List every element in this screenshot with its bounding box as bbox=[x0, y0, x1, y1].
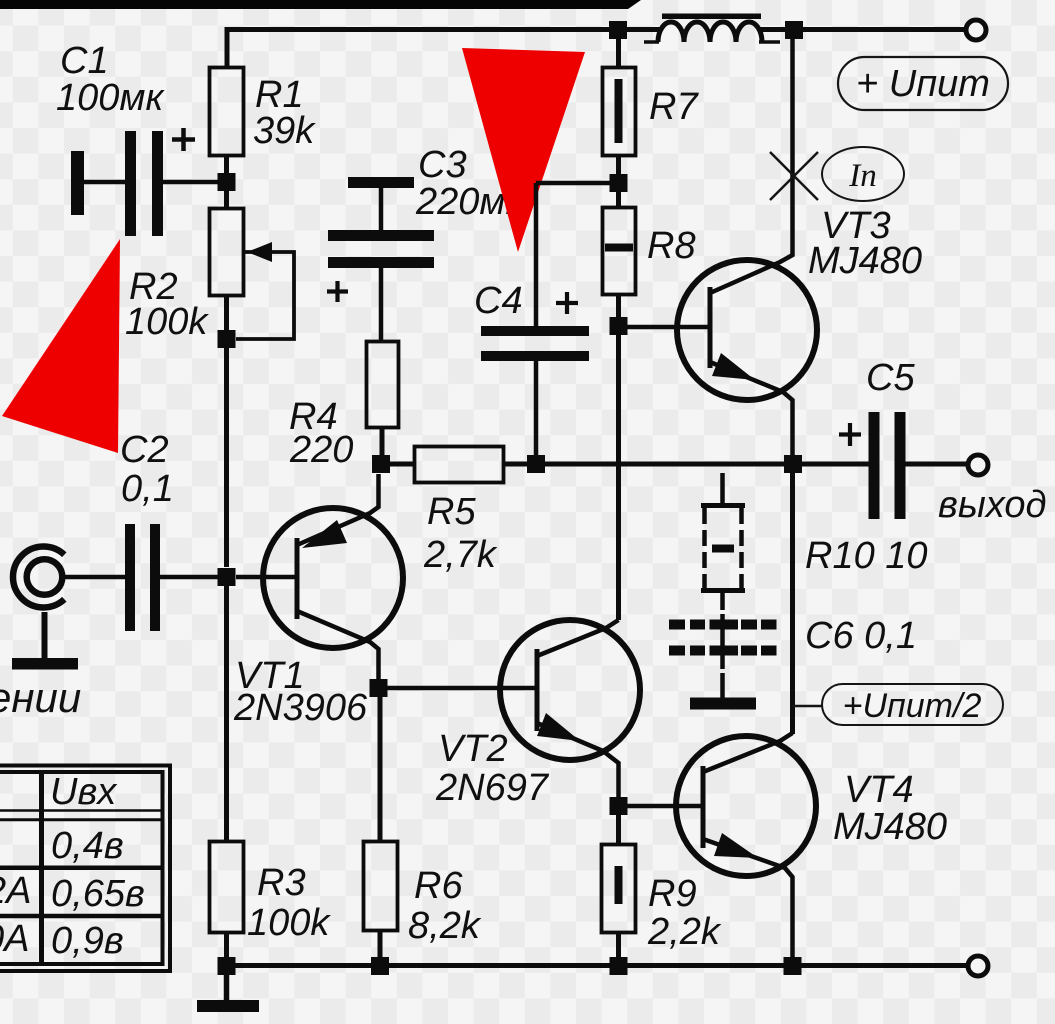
svg-text:0,4в: 0,4в bbox=[51, 825, 124, 867]
svg-text:R7: R7 bbox=[649, 86, 699, 128]
capacitor C6 bbox=[669, 593, 917, 710]
ground input bbox=[12, 658, 78, 670]
node junction C1/R1/R2 bbox=[218, 173, 236, 191]
top black border bar bbox=[0, 0, 641, 9]
svg-text:Uвх: Uвх bbox=[50, 771, 118, 813]
node junction R6 ground bbox=[371, 957, 389, 975]
resistor R3 bbox=[210, 842, 332, 945]
capacitor C2 bbox=[64, 429, 218, 631]
wire R5 node to output node bbox=[545, 462, 785, 467]
wire R6 to ground rail bbox=[378, 930, 383, 958]
svg-text:100мк: 100мк bbox=[56, 77, 165, 119]
wire VT2 node to VT4 base bbox=[627, 804, 702, 809]
svg-text:8,2k: 8,2k bbox=[408, 905, 482, 947]
label In oval bbox=[822, 147, 904, 201]
wire R3 to ground rail bbox=[224, 933, 229, 957]
resistor R4 bbox=[289, 342, 399, 472]
red triangle top bbox=[462, 48, 585, 252]
resistor R6 bbox=[364, 842, 482, 948]
svg-text:R10 10: R10 10 bbox=[805, 535, 928, 577]
svg-text:C4: C4 bbox=[474, 280, 523, 322]
svg-text:2,7k: 2,7k bbox=[423, 534, 498, 576]
wire VT1 collector to VT2 base bbox=[387, 686, 537, 691]
resistor R5 bbox=[390, 447, 528, 577]
red triangle left bbox=[2, 239, 120, 453]
transistor VT4 bbox=[676, 733, 947, 958]
svg-text:R9: R9 bbox=[648, 873, 697, 915]
svg-text:R8: R8 bbox=[647, 225, 696, 267]
terminal bottom right bbox=[968, 956, 988, 976]
node junction R8/VT3 base bbox=[610, 317, 628, 335]
svg-text:0,9в: 0,9в bbox=[51, 920, 124, 962]
svg-text:R5: R5 bbox=[427, 491, 476, 533]
node junction top VT3 bbox=[785, 21, 803, 39]
wire node to R6 bbox=[378, 697, 383, 841]
resistor R7 bbox=[603, 39, 700, 156]
svg-text:R3: R3 bbox=[257, 862, 306, 904]
svg-text:0A: 0A bbox=[0, 918, 29, 960]
wire top rail right segment bbox=[758, 27, 967, 32]
wire output node down to VT4 collector bbox=[790, 473, 795, 734]
resistor R1 bbox=[210, 68, 317, 156]
wire node to VT3 base bbox=[627, 325, 710, 330]
capacitor C4 bbox=[474, 183, 610, 456]
wire R8 to node bbox=[616, 294, 621, 318]
svg-text:C5: C5 bbox=[866, 357, 915, 399]
svg-text:+Uпит/2: +Uпит/2 bbox=[843, 687, 982, 725]
svg-text:0,1: 0,1 bbox=[121, 468, 174, 510]
wire R7 to node bbox=[616, 155, 621, 174]
svg-text:ении: ении bbox=[0, 674, 81, 721]
svg-text:R6: R6 bbox=[414, 865, 463, 907]
node junction C2/VT1 base bbox=[218, 568, 236, 586]
svg-text:C3: C3 bbox=[418, 144, 467, 186]
measurement cross X bbox=[770, 152, 818, 200]
transistor VT2 bbox=[435, 620, 640, 809]
transistor VT1 bbox=[233, 474, 403, 729]
svg-text:220: 220 bbox=[289, 429, 353, 471]
svg-text:+ Uпит: + Uпит bbox=[856, 63, 990, 105]
label +Upit pill bbox=[838, 57, 1008, 110]
svg-text:MJ480: MJ480 bbox=[833, 806, 947, 848]
resistor R10 bbox=[701, 473, 928, 591]
bottom rail wire bbox=[227, 963, 970, 968]
label +Upit/2 pill bbox=[792, 684, 1003, 725]
node junction R9 ground bbox=[610, 957, 628, 975]
wire node to R9 bbox=[616, 815, 621, 843]
node junction VT1 collector / VT2 base bbox=[370, 679, 388, 697]
capacitor C3 bbox=[327, 144, 525, 341]
svg-text:Iп: Iп bbox=[848, 158, 877, 194]
svg-text:0,65в: 0,65в bbox=[51, 873, 145, 915]
input connector X1 bbox=[13, 547, 64, 659]
svg-text:C1: C1 bbox=[60, 40, 109, 82]
wire node to R3 bbox=[224, 586, 229, 840]
terminal output bbox=[968, 455, 988, 475]
svg-text:выход: выход bbox=[938, 484, 1047, 526]
node junction R2 wiper bbox=[218, 330, 236, 348]
svg-text:2,2k: 2,2k bbox=[647, 911, 722, 953]
svg-text:100k: 100k bbox=[125, 301, 209, 343]
node junction R7/R8/C4 bbox=[610, 174, 628, 192]
svg-text:2A: 2A bbox=[0, 870, 31, 912]
ground symbol bbox=[197, 975, 259, 1012]
svg-text:C6 0,1: C6 0,1 bbox=[805, 615, 917, 657]
node junction C4/R5 wire bbox=[527, 455, 545, 473]
svg-text:39k: 39k bbox=[253, 110, 316, 152]
inductor L1 bbox=[644, 14, 780, 43]
svg-text:2N3906: 2N3906 bbox=[233, 687, 368, 729]
node junction R4/R5/VT1 bbox=[372, 455, 390, 473]
svg-text:VT2: VT2 bbox=[438, 728, 508, 770]
wire node down to VT2 collector bbox=[616, 335, 621, 620]
table of measurements bbox=[0, 766, 170, 972]
resistor R9 bbox=[602, 845, 722, 954]
node junction output bbox=[784, 455, 802, 473]
resistor R8 bbox=[603, 192, 696, 295]
svg-text:VT4: VT4 bbox=[844, 769, 914, 811]
capacitor C5 bbox=[802, 357, 968, 519]
wire top rail left segment bbox=[227, 30, 660, 67]
transistor VT3 bbox=[677, 39, 922, 456]
terminal +Upit bbox=[966, 20, 986, 40]
node junction VT4 emitter ground bbox=[784, 957, 802, 975]
svg-text:MJ480: MJ480 bbox=[808, 240, 922, 282]
node junction VT2 emitter / VT4 base bbox=[610, 797, 628, 815]
node junction top R7 bbox=[609, 21, 627, 39]
svg-text:2N697: 2N697 bbox=[435, 767, 550, 809]
svg-text:C2: C2 bbox=[120, 429, 169, 471]
wire R2 to C2 node bbox=[224, 348, 229, 567]
capacitor C1 bbox=[56, 40, 218, 236]
wire R1 to R2 bbox=[224, 155, 229, 207]
potentiometer R2 bbox=[125, 209, 294, 344]
wire R9 to ground rail bbox=[616, 932, 621, 958]
node junction R3 ground bbox=[218, 957, 236, 975]
svg-text:100k: 100k bbox=[247, 902, 331, 944]
